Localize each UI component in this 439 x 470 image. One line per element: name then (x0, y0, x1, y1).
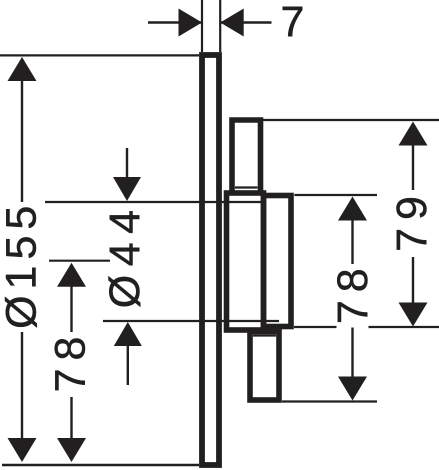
upper connection box (232, 120, 261, 194)
svg-text:7: 7 (281, 0, 305, 46)
dimension D44: up arrowhead (114, 322, 142, 346)
upper box inner seam line (235, 186, 258, 188)
dimension 79: top extension line (263, 119, 439, 121)
dimension 79: bottom extension line left segment (294, 326, 337, 328)
dimension D44: lower feature line (103, 320, 279, 322)
dimension 78 right: bottom extension line (282, 400, 377, 402)
dimension 79: lower line segment (412, 257, 414, 303)
dimension 7: right extension line (219, 0, 221, 52)
svg-text:78: 78 (47, 329, 95, 393)
svg-text:79: 79 (388, 188, 436, 252)
dimension D44: upper tail line (126, 148, 128, 178)
dimension 79: upper line segment (412, 145, 414, 190)
dimension 78 left: up arrowhead (57, 263, 86, 287)
dimension D44: down arrowhead (113, 177, 141, 201)
dimension 79: up arrowhead (399, 122, 428, 146)
svg-text:Ø155: Ø155 (0, 200, 46, 329)
dimension D155: up arrowhead (8, 57, 37, 81)
dimension 78 left: lower line segment (70, 397, 72, 439)
svg-text:Ø44: Ø44 (101, 201, 149, 308)
dimension 7: right tail line (221, 21, 272, 23)
dimension 78 right: down arrowhead (338, 377, 367, 401)
dimension D155: lower line segment (21, 332, 23, 439)
dimension 78 left: upper line segment (70, 286, 72, 332)
plate (wall escutcheon, side view) (202, 55, 219, 465)
svg-text:78: 78 (329, 260, 377, 324)
dimension D155: upper line segment (21, 80, 23, 202)
body flange (rect A) (227, 193, 264, 330)
dimension D155: down arrowhead (8, 438, 37, 462)
dimension 79: down arrowhead (399, 303, 428, 327)
dimension 78 right: lower line segment (351, 328, 353, 378)
dimension 7: left extension line (201, 0, 203, 52)
dimension 78 right: top extension line (294, 194, 377, 196)
dimension D44: lower tail line (127, 345, 129, 385)
dimension D155: bottom extension line (2, 464, 199, 467)
dimension 78 left: center extension line (49, 260, 110, 262)
body housing (rect B) (264, 196, 292, 327)
dimension D44: upper feature line (45, 201, 264, 203)
dimension 7: left tail line (148, 21, 201, 23)
dimension 7: left arrowhead (179, 9, 203, 37)
dimension 7: right arrowhead (220, 9, 244, 37)
dimension 78 left: down arrowhead (57, 438, 86, 462)
dimension D155: top extension line (0, 54, 199, 56)
lower box inner seam line (253, 334, 276, 336)
dimension 78 right: upper line segment (351, 220, 353, 264)
dimension 79: bottom extension line right segment (369, 326, 439, 328)
lower connection box (250, 332, 279, 401)
dimension 78 right: up arrowhead (338, 197, 367, 221)
